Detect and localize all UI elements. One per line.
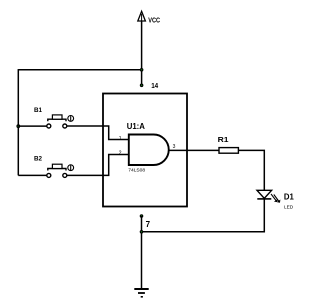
wire VCC vertical	[141, 21, 143, 86]
LED D1	[257, 190, 280, 202]
svg-text:B2: B2	[34, 156, 43, 163]
svg-text:VCC: VCC	[148, 17, 160, 24]
wire left rail	[17, 69, 19, 175]
svg-text:2: 2	[119, 151, 122, 157]
button B1	[34, 107, 74, 128]
svg-text:3: 3	[173, 144, 176, 150]
svg-text:74LS08: 74LS08	[128, 168, 145, 173]
LED D1 labels	[284, 193, 294, 211]
button B2	[34, 156, 74, 178]
svg-text:14: 14	[151, 81, 158, 90]
power symbol VCC	[138, 11, 160, 24]
wire B1 right	[67, 126, 129, 140]
wire pin7 to ground	[141, 216, 143, 289]
svg-text:LED: LED	[284, 204, 294, 210]
svg-text:7: 7	[146, 220, 151, 229]
pin 7 dot	[140, 214, 144, 218]
svg-text:1: 1	[119, 136, 122, 142]
node junction bottom	[140, 230, 144, 234]
resistor R1	[218, 135, 239, 153]
ground	[134, 289, 148, 297]
wire R1 to LED	[238, 150, 264, 190]
wire top horizontal	[18, 69, 141, 71]
svg-text:R1: R1	[218, 135, 229, 144]
node junction B1 rail	[16, 124, 20, 128]
wire LED down to bottom	[142, 199, 265, 232]
wire B2 right	[67, 155, 129, 176]
pin 14 dot	[140, 84, 144, 88]
junction at VCC tee	[140, 68, 144, 72]
svg-text:B1: B1	[34, 107, 43, 114]
wire B2 left	[18, 174, 47, 176]
wire B1 left	[18, 125, 47, 127]
wire gate output	[169, 149, 219, 151]
svg-text:D1: D1	[284, 193, 294, 202]
svg-text:U1:A: U1:A	[127, 122, 145, 131]
op-amp U1:A AND gate	[127, 122, 169, 173]
IC box U1	[103, 94, 187, 207]
